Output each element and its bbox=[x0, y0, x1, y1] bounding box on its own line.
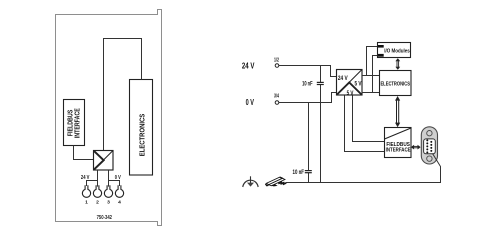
wire 0V to converter bbox=[279, 93, 336, 103]
wire 0V converter to electronics bbox=[362, 92, 380, 94]
svg-text:INTERFACE: INTERFACE bbox=[386, 148, 411, 154]
terminal circle 1/2 bbox=[275, 64, 279, 68]
svg-text:24 V: 24 V bbox=[242, 62, 255, 71]
wire io modules pin2 bbox=[373, 56, 379, 93]
converter diagonal bbox=[94, 151, 113, 170]
terminal 1 bbox=[82, 185, 90, 197]
electronics box U6 bbox=[380, 71, 412, 96]
converter diagonal bbox=[337, 70, 362, 95]
dsub connector J1 body bbox=[421, 127, 437, 164]
module outline frame bbox=[56, 10, 162, 226]
svg-text:2: 2 bbox=[96, 200, 99, 206]
svg-text:24 V: 24 V bbox=[81, 175, 90, 181]
io modules pin pad 1 bbox=[378, 45, 384, 48]
terminal 2 bbox=[93, 185, 101, 197]
ground symbol bbox=[243, 176, 258, 187]
svg-text:ELECTRONICS: ELECTRONICS bbox=[137, 114, 146, 157]
fieldbus interface box U7 bbox=[385, 128, 412, 158]
dc/dc converter U3 bbox=[94, 151, 114, 171]
svg-text:1: 1 bbox=[85, 200, 88, 206]
wire converter to terminal 3 bbox=[108, 170, 110, 187]
capacitor C1 plates bbox=[317, 81, 324, 83]
svg-text:ELECTRONICS: ELECTRONICS bbox=[380, 82, 410, 88]
fieldbus isolation diagonal bbox=[385, 128, 412, 139]
wire fieldbus box to converter bbox=[74, 146, 94, 160]
svg-text:0 V: 0 V bbox=[246, 98, 255, 107]
terminal circle 3/4 bbox=[275, 101, 279, 105]
shield rail bbox=[286, 182, 442, 184]
electronics box U2 bbox=[130, 80, 153, 176]
svg-text:10 nF: 10 nF bbox=[293, 170, 305, 176]
label fieldbus interface bbox=[386, 142, 411, 154]
svg-text:3/4: 3/4 bbox=[274, 94, 279, 100]
svg-text:750-342: 750-342 bbox=[97, 215, 112, 221]
dc/dc converter U4 24V/5V bbox=[337, 70, 363, 96]
svg-text:1/2: 1/2 bbox=[274, 57, 279, 63]
terminal numbers bbox=[85, 200, 121, 206]
capacitor C2 10nF (0V to shield) wire bbox=[308, 103, 310, 171]
dsub screw top bbox=[427, 131, 432, 136]
svg-text:4: 4 bbox=[118, 200, 121, 206]
dsub shell bbox=[424, 139, 436, 154]
wire converter to fieldbus lower bbox=[345, 96, 385, 152]
bus 0V terminals 3-4 bbox=[109, 181, 120, 187]
dsub screw bottom bbox=[427, 156, 432, 161]
bus 24V terminals 1-2 bbox=[87, 181, 98, 187]
fieldbus interface box U1 bbox=[64, 100, 85, 146]
wire io modules pin1 bbox=[367, 47, 379, 76]
svg-text:0 V: 0 V bbox=[115, 175, 122, 181]
wire 5V converter to electronics bbox=[362, 75, 380, 77]
svg-text:INTERFACE: INTERFACE bbox=[75, 108, 82, 138]
fieldbus interface label bbox=[68, 108, 82, 138]
data bus double arrow electronics-fieldbus bbox=[395, 96, 400, 127]
converter chevron bbox=[337, 83, 362, 95]
io modules box U5 bbox=[378, 43, 411, 58]
terminal 4 bbox=[115, 185, 123, 197]
terminal 3 bbox=[104, 185, 112, 197]
wire converter to fieldbus upper bbox=[353, 96, 385, 142]
capacitor C2 plates bbox=[305, 170, 312, 172]
io modules pin pad 2 bbox=[378, 54, 384, 57]
dsub pins bbox=[426, 139, 432, 153]
arrow fieldbus to connector bbox=[411, 145, 421, 150]
svg-text:24 V: 24 V bbox=[338, 75, 348, 82]
svg-text:10 nF: 10 nF bbox=[302, 82, 313, 88]
din rail symbol bbox=[265, 177, 286, 186]
svg-text:3: 3 bbox=[107, 200, 110, 206]
shield wire connector to rail bbox=[433, 154, 441, 183]
svg-text:I/O Modules: I/O Modules bbox=[384, 48, 410, 54]
wire 24V to converter bbox=[279, 66, 336, 77]
svg-text:5 V: 5 V bbox=[355, 80, 363, 87]
wire converter top loop to electronics bbox=[104, 39, 142, 151]
converter chevron bbox=[94, 151, 104, 170]
arrow io modules to electronics bbox=[395, 58, 400, 70]
capacitor C1 10nF (24V to shield) wire bbox=[320, 66, 322, 83]
wire converter to terminal 2 bbox=[97, 170, 99, 187]
